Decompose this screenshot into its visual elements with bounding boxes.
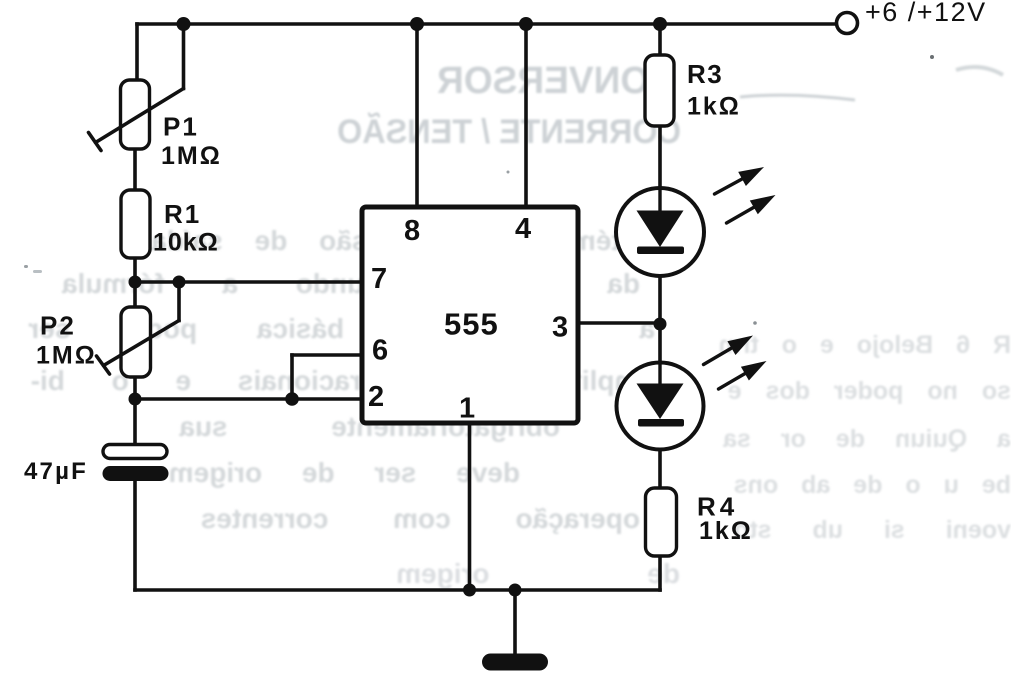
svg-text:voeni si ub sto: voeni si ub sto [734,516,1011,544]
wire: R1 to node A row [133,258,137,307]
faint pencil smudge near R3 [740,95,855,100]
svg-text:P2: P2 [40,311,76,341]
wire: R4 to bottom rail [658,556,662,590]
svg-text:R1: R1 [164,199,201,229]
svg-text:+6 /+12V: +6 /+12V [865,0,987,27]
+V terminal circle [837,13,858,34]
svg-text:de origem: de origem [396,558,680,589]
svg-text:1kΩ: 1kΩ [699,517,753,545]
scan speck marks [24,55,934,325]
potentiometer P2 wiper arrow [97,321,180,375]
capacitor C1 bottom plate (filled) [103,466,169,481]
LED D1 circle [616,188,704,276]
potentiometer P2 body [121,307,151,377]
capacitor C1 top plate [103,445,167,459]
wire: LED1 cathode through node to LED2 anode [658,254,662,384]
svg-text:47µF: 47µF [24,458,88,485]
node: rail / pin 4 [519,17,533,31]
wire: P1 wiper vertical to rail [182,24,186,89]
wire: bottom rail [135,588,660,592]
wire: pin 6 jog horizontal [292,353,362,357]
node: P2 wiper junction [173,276,186,289]
potentiometer P1 body [121,80,150,149]
LED D1 triangle [637,211,684,248]
svg-text:1MΩ: 1MΩ [161,142,222,170]
resistor R4 body [646,488,677,556]
wire: P2 bottom to capacitor [133,377,137,444]
wire: node A to pin 7 [135,280,362,284]
wire: pin 1 down to bottom rail [468,423,472,590]
wire: rail down to P1 top [135,24,139,80]
svg-text:be u o de ab ons: be u o de ab ons [734,471,1011,499]
LED D1 anode wire inside [658,188,661,211]
LED D1 cathode bar [637,247,684,255]
svg-text:4: 4 [515,213,531,245]
svg-text:7: 7 [371,263,387,295]
resistor R1 body [121,190,150,258]
svg-text:1kΩ: 1kΩ [687,93,741,121]
svg-text:8: 8 [404,215,420,247]
ground symbol [482,654,548,671]
svg-text:a Quiun de or sa: a Quiun de or sa [722,425,1011,453]
svg-text:1MΩ: 1MΩ [36,342,97,370]
node: P2 bottom / pin 2 [129,393,142,406]
wire: pin 6 jog vertical [290,355,294,399]
LED D2 light arrow 1 [704,336,754,365]
svg-text:2: 2 [368,381,384,413]
wire: +V top rail [137,22,837,26]
background bleed-through ghost text (mirrored scan artifact) [28,60,1011,589]
LED D1 light arrow 2 [727,195,776,223]
potentiometer P1 wiper arrow [89,89,184,151]
node: rail / pin 8 [410,17,424,31]
op IC 555 body U1 [362,207,578,423]
wire: pin 3 to LED node [578,321,660,325]
wire: R3 to LED1 anode [658,126,662,210]
svg-text:deve ser de origem: deve ser de origem [169,457,520,488]
svg-text:6: 6 [372,335,388,367]
svg-text:R3: R3 [687,59,723,89]
wire: P2 wiper vertical [177,282,181,321]
LED D2 anode wire inside [658,362,661,384]
svg-text:R 6 Belojo e o trm: R 6 Belojo e o trm [718,331,1011,359]
svg-text:1: 1 [459,393,475,425]
svg-text:CORRENTE / TENSÃO: CORRENTE / TENSÃO [337,113,681,151]
resistor R3 body [645,55,674,126]
svg-text:P1: P1 [163,112,199,142]
node: pin 1 / bottom rail [463,584,476,597]
wire: rail down to R3 [658,24,662,55]
node: pin 3 / LED junction [654,318,667,331]
node: rail / P1 wiper [177,17,191,31]
LED D1 light arrow 1 [715,167,765,194]
wire: pin 2 run to P2 bottom node [135,397,362,401]
LED D2 light arrow 2 [719,361,767,389]
wire: LED2 cathode to R4 [658,426,662,488]
node: rail / R3 [653,17,667,31]
svg-text:CONVERSOR: CONVERSOR [437,60,676,102]
svg-text:3: 3 [552,312,568,344]
svg-text:10kΩ: 10kΩ [153,229,219,257]
wire: capacitor to bottom rail [133,481,137,590]
wire: pin 4 to rail [524,24,528,207]
LED D2 cathode bar [638,419,684,427]
node: R1-P2 junction [129,276,142,289]
LED D2 circle [617,363,704,450]
svg-text:so no poder dos e: so no poder dos e [728,377,1011,405]
node: ground / bottom rail [509,584,522,597]
wire: pin 8 to rail [415,24,419,207]
svg-text:555: 555 [444,307,499,342]
svg-text:operação com correntes: operação com correntes [201,503,640,534]
wire: ground stem [513,590,517,655]
wire: P1 to R1 [133,149,137,190]
node: pin 6 / pin 2 junction [285,392,299,406]
LED D2 triangle [637,384,684,420]
